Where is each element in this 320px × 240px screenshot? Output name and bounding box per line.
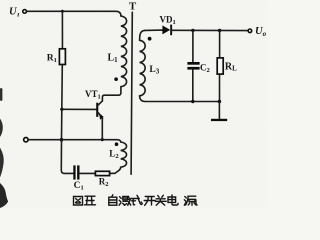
ground — [211, 119, 227, 121]
input terminal Ui — [23, 10, 27, 14]
polarity dot L1 — [114, 77, 118, 81]
wire collector to L1 — [102, 87, 121, 101]
diode VD1 — [162, 25, 172, 36]
wire RL bottom lead — [219, 74, 221, 101]
图 — [74, 197, 83, 206]
wire C1 to R2 — [80, 172, 96, 174]
wire bottom rail — [145, 101, 219, 103]
wire R1 bottom lead — [61, 65, 64, 110]
wire top rail — [172, 29, 248, 31]
output terminal Uo — [248, 29, 252, 33]
wire input top — [27, 11, 121, 16]
源 — [184, 196, 197, 205]
wire C2 bottom lead — [192, 70, 194, 102]
inductor L1 — [121, 16, 127, 87]
wire emitter lead — [101, 118, 103, 139]
resistor RL — [217, 58, 223, 74]
wire base — [62, 108, 96, 110]
式 — [131, 195, 142, 204]
wire feedback — [29, 140, 121, 142]
junction emitter — [101, 138, 104, 141]
inductor L2 — [115, 142, 127, 173]
junction base — [60, 108, 63, 111]
电 — [168, 195, 178, 205]
junction R1 top — [61, 10, 64, 13]
polarity dot L3 — [148, 37, 152, 41]
polarity dot L2 — [115, 142, 119, 146]
自 — [109, 195, 117, 205]
capacitor C2 — [187, 62, 199, 70]
resistor R1 — [59, 49, 65, 65]
transformer core — [131, 12, 132, 174]
wire R2 to L2 — [110, 172, 115, 174]
关 — [155, 195, 166, 205]
wire R1 top lead — [61, 11, 63, 49]
junction C2 top — [191, 29, 194, 32]
transistor VT1 — [96, 101, 103, 120]
junction ground — [218, 100, 222, 104]
junction feedback left — [60, 138, 64, 142]
五 — [85, 196, 96, 205]
resistor R2 — [95, 171, 109, 175]
svg-text:T: T — [129, 1, 137, 13]
inductor L3 — [140, 30, 146, 101]
junction C2 bottom — [191, 100, 194, 103]
wire L3 to diode — [145, 29, 163, 31]
capacitor C1 — [73, 165, 79, 179]
开 — [144, 197, 155, 206]
junction RL top — [218, 29, 221, 32]
wire C2 top lead — [192, 30, 194, 62]
wire ground lead — [218, 102, 220, 119]
wire RL top lead — [219, 31, 221, 58]
wire left vertical lower — [61, 109, 73, 173]
激 — [119, 196, 131, 205]
lower input terminal — [24, 138, 28, 142]
caption 图五 自激式开关电源 — [74, 195, 198, 206]
